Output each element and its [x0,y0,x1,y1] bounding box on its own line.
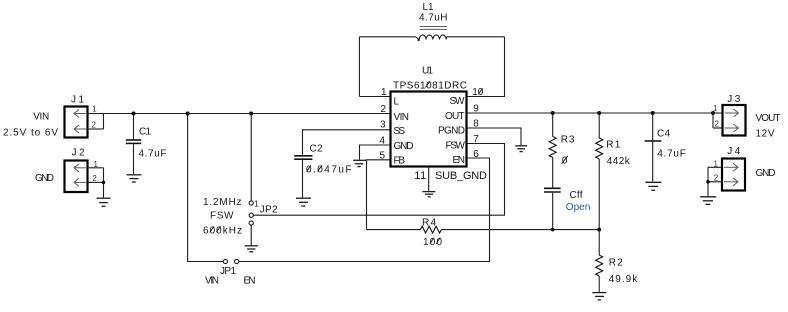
svg-text:6: 6 [473,149,479,160]
svg-text:2: 2 [714,174,719,183]
svg-text:J1: J1 [71,94,84,105]
wire EN net [239,158,490,262]
label 600kHz [203,225,242,236]
svg-text:1: 1 [714,160,719,169]
ic U1 pin 11 SUB_GND [414,170,487,182]
wire FB bottom rail left [367,229,421,231]
svg-text:0.047uF: 0.047uF [306,165,352,176]
capacitor C1 [126,114,167,175]
wire FB bottom rail right [441,229,599,231]
svg-text:1: 1 [713,104,718,113]
ground U1 pin4 [353,160,366,166]
svg-text:FB: FB [394,156,406,167]
junction R1 tap [597,111,601,115]
ground PGND [515,146,527,152]
svg-text:JP1: JP1 [220,266,236,277]
svg-text:C4: C4 [657,129,670,140]
svg-text:2: 2 [92,121,97,130]
svg-text:VOUT: VOUT [756,113,781,124]
wire PGND [467,128,522,145]
svg-text:R3: R3 [561,134,575,145]
svg-text:2.5V to 6V: 2.5V to 6V [3,128,58,139]
ground J2 [97,198,111,206]
svg-text:12V: 12V [756,129,775,140]
ic U1 right pin numbers [472,87,483,160]
svg-text:442k: 442k [607,156,631,167]
svg-text:VIN: VIN [33,112,49,123]
wire VIN to JP2 [250,114,252,201]
svg-text:C1: C1 [139,126,151,137]
svg-text:J2: J2 [72,147,85,158]
svg-text:GND: GND [394,141,414,152]
capacitor C4 [645,113,686,181]
junction JP1 tap [186,112,190,116]
junction J4 pin2 [706,180,710,184]
wire FB [367,160,391,230]
ic U1 right pin names [438,96,466,166]
capacitor C2 [294,130,390,198]
ic U1 box [391,66,468,167]
wire VIN to JP1 [188,114,224,262]
wire SW top loop [359,37,504,97]
svg-text:L: L [394,97,400,108]
svg-text:R1: R1 [606,139,620,150]
svg-text:Open: Open [566,202,591,213]
wire OUT rail [467,112,714,114]
svg-text:PGND: PGND [438,126,465,137]
junction J3 tap [711,111,715,115]
svg-text:7: 7 [473,134,479,145]
ground C4 [645,182,661,190]
svg-text:GND: GND [756,168,776,179]
svg-text:FSW: FSW [446,141,466,152]
ground J4 [700,197,716,205]
svg-text:4.7uF: 4.7uF [657,149,686,160]
svg-text:GND: GND [35,173,54,184]
junction R1/R2/R4 [597,228,601,232]
svg-text:SW: SW [450,96,466,107]
junction C4 tap [651,111,655,115]
junction JP2 tap [249,112,253,116]
svg-text:600kHz: 600kHz [203,225,242,236]
resistor R3 [549,113,575,188]
svg-text:JP2: JP2 [260,205,278,216]
junction Cff bottom [551,228,555,232]
svg-text:1: 1 [254,198,259,208]
ic U1 left pin names [394,97,414,167]
inductor L1 [416,2,448,41]
connector J3 [713,94,746,136]
resistor R2 [596,230,639,293]
svg-text:3: 3 [380,119,386,130]
connector J1 [65,94,104,137]
svg-text:4.7uF: 4.7uF [139,149,167,160]
svg-text:EN: EN [453,155,466,166]
svg-text:J4: J4 [727,146,740,157]
ic U1 left pin numbers [380,87,388,161]
junction C1 tap [132,112,136,116]
wire FSW net [253,144,504,216]
resistor R4 [420,218,442,248]
svg-text:1: 1 [92,105,97,114]
junction J2 pin2 [102,181,106,185]
svg-text:11: 11 [414,170,426,182]
svg-text:TPS61081DRC: TPS61081DRC [393,81,467,92]
svg-text:R2: R2 [609,258,623,269]
capacitor Cff [544,188,590,229]
svg-text:2: 2 [715,119,720,128]
svg-text:VIN: VIN [205,276,219,287]
svg-text:SS: SS [394,126,406,137]
wire VIN rail [104,113,391,115]
svg-text:R4: R4 [422,218,436,229]
svg-text:49.9k: 49.9k [609,274,639,285]
ground C2 [296,198,311,206]
jumper JP1 [220,259,239,277]
svg-text:2: 2 [381,104,387,115]
svg-text:J3: J3 [727,94,740,105]
resistor R1 [596,113,631,230]
junction R3 tap [551,111,555,115]
ground C1 [127,175,142,182]
wire U1 pin4 GND [360,145,391,160]
svg-text:4.7uH: 4.7uH [419,12,448,23]
ground R2 [592,293,606,300]
wire JP2 to ground [250,225,252,246]
svg-text:C2: C2 [310,144,323,155]
svg-text:OUT: OUT [445,111,465,122]
svg-text:FSW: FSW [210,211,234,222]
jumper JP2 [249,198,278,225]
svg-text:EN: EN [244,276,256,287]
svg-text:Cff: Cff [570,190,583,201]
svg-text:U1: U1 [422,66,433,77]
svg-text:1.2MHz: 1.2MHz [203,197,242,208]
ground JP2 [245,246,258,252]
connector J4 [708,146,745,196]
svg-text:1: 1 [94,160,99,169]
ground U1 SUB_GND [422,167,435,197]
svg-text:2: 2 [92,174,97,183]
svg-text:SUB_GND: SUB_GND [435,170,487,182]
wire U1 pin1 stub [359,96,390,98]
connector J2 [65,147,104,198]
svg-text:VIN: VIN [394,112,410,123]
